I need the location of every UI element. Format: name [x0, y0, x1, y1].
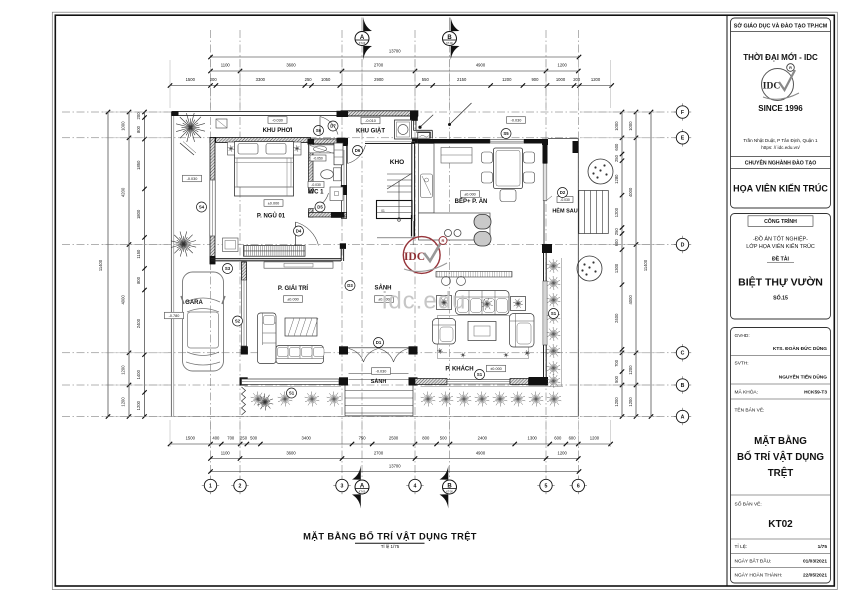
- bedroom cabinet: [223, 238, 239, 252]
- side table left: [437, 296, 452, 310]
- wc right wall: [342, 145, 347, 219]
- svg-text:2700: 2700: [374, 62, 384, 67]
- hem sau exterior steps: [579, 191, 609, 234]
- svg-text:800: 800: [136, 276, 141, 284]
- fence post grid6/E: [573, 141, 579, 153]
- svg-text:-0.780: -0.780: [169, 314, 180, 318]
- window tag S1 porch-left: [287, 388, 297, 398]
- svg-text:400: 400: [212, 436, 220, 441]
- svg-text:750: 750: [359, 436, 367, 441]
- svg-text:1000: 1000: [628, 121, 633, 131]
- svg-text:4000: 4000: [121, 295, 126, 305]
- svg-text:D: D: [681, 242, 685, 248]
- svg-text:S1: S1: [477, 372, 483, 377]
- section marker B bottom: [440, 466, 449, 480]
- svg-text:4: 4: [414, 483, 417, 489]
- svg-text:S6: S6: [316, 128, 322, 133]
- svg-text:MẶT BẰNG BỐ TRÍ VẬT DỤNG TRỆT: MẶT BẰNG BỐ TRÍ VẬT DỤNG TRỆT: [303, 531, 477, 542]
- svg-text:1200: 1200: [136, 400, 141, 410]
- terrace plant bottom: [184, 244, 197, 247]
- foyer/kitchen divider grid4: [411, 215, 413, 237]
- svg-text:1200: 1200: [614, 207, 619, 217]
- wc bottom wall: [309, 213, 347, 218]
- living sofa main: [456, 291, 510, 315]
- flower bed bottom-left: [245, 386, 342, 388]
- door tag D7: [328, 121, 338, 131]
- svg-text:1000: 1000: [614, 121, 619, 131]
- svg-text:±0.000: ±0.000: [287, 298, 299, 302]
- kitchen right wall grid5: [543, 144, 548, 164]
- door swing NE: [420, 115, 434, 128]
- svg-text:-0.030: -0.030: [560, 198, 570, 202]
- bedroom left wall: [210, 138, 215, 265]
- svg-text:2400: 2400: [478, 436, 488, 441]
- svg-text:P. NGỦ 01: P. NGỦ 01: [257, 213, 286, 220]
- watermark IDC red logo: [403, 237, 440, 274]
- door tag D2: [558, 188, 568, 198]
- window tag S3: [223, 264, 233, 274]
- svg-text:E: E: [681, 136, 685, 142]
- coffee table ent: [285, 318, 317, 336]
- svg-text:1100: 1100: [221, 450, 231, 455]
- door D7 arc: [319, 117, 321, 135]
- section marker B top: [451, 17, 460, 31]
- svg-text:1100: 1100: [221, 62, 231, 67]
- svg-text:-0.030: -0.030: [187, 177, 198, 181]
- svg-text:1200: 1200: [121, 397, 126, 407]
- svg-text:GVHD:: GVHD:: [735, 333, 750, 339]
- svg-text:S5: S5: [503, 131, 509, 136]
- window tag S4: [197, 202, 207, 212]
- svg-text:200: 200: [573, 77, 581, 82]
- title block box 3: [731, 328, 831, 584]
- svg-text:1200: 1200: [628, 397, 633, 407]
- svg-text:B: B: [681, 383, 685, 389]
- svg-text:01: 01: [381, 209, 385, 213]
- svg-text:1200: 1200: [502, 77, 512, 82]
- svg-text:2: 2: [239, 483, 242, 489]
- svg-text:600: 600: [614, 239, 619, 247]
- svg-text:2700: 2700: [374, 450, 384, 455]
- washing machine: [395, 120, 412, 139]
- khu phoi vent: [216, 119, 227, 128]
- door tag D6: [353, 146, 363, 156]
- svg-text:6: 6: [577, 483, 580, 489]
- svg-text:-ĐỒ ÁN TỐT NGHIỆP-: -ĐỒ ÁN TỐT NGHIỆP-: [753, 235, 808, 243]
- tv sideboard: [264, 262, 333, 268]
- svg-text:11400: 11400: [643, 259, 648, 271]
- wall NE notch: [412, 111, 418, 117]
- top dimension chains: [211, 56, 580, 58]
- svg-text:700: 700: [227, 436, 235, 441]
- kho right wall grid4: [411, 142, 413, 221]
- svg-text:1150: 1150: [136, 249, 141, 259]
- svg-text:P. KHÁCH: P. KHÁCH: [445, 366, 473, 373]
- living bottom wall: [415, 379, 447, 385]
- svg-text:1200: 1200: [628, 365, 633, 375]
- grid bubbles right A-F: [674, 111, 691, 113]
- svg-text:R: R: [789, 66, 792, 70]
- svg-text:500: 500: [440, 436, 448, 441]
- svg-text:200: 200: [210, 77, 218, 82]
- hedge sawtooth: [242, 387, 246, 415]
- small decor marks: [440, 350, 443, 353]
- terrace ramp mark: [180, 143, 194, 155]
- flower bed bottom-right: [421, 386, 564, 388]
- svg-text:1000: 1000: [121, 121, 126, 131]
- svg-text:-0.030: -0.030: [272, 119, 283, 123]
- svg-text:500: 500: [250, 436, 258, 441]
- right dimension chains: [621, 112, 623, 417]
- svg-text:3600: 3600: [286, 450, 296, 455]
- svg-text:250: 250: [305, 77, 313, 82]
- svg-text:11400: 11400: [98, 259, 103, 271]
- kitchen sink: [421, 174, 433, 198]
- svg-text:-0.010: -0.010: [365, 119, 376, 123]
- svg-text:2500: 2500: [389, 436, 399, 441]
- svg-text:500: 500: [614, 375, 619, 383]
- tree NE: [588, 159, 613, 184]
- svg-text:HCK59-T3: HCK59-T3: [804, 390, 827, 396]
- svg-text:A: A: [360, 35, 365, 41]
- svg-text:IDC: IDC: [763, 82, 781, 92]
- svg-text:3400: 3400: [302, 436, 312, 441]
- coffee table living: [468, 322, 496, 341]
- wc tall cabinet: [334, 143, 343, 165]
- svg-text:KT-00: KT-00: [359, 490, 366, 493]
- wall E bedroom top (hatched): [210, 138, 311, 143]
- svg-text:SỐ BẢN VẼ:: SỐ BẢN VẼ:: [735, 501, 762, 508]
- wall wc top: [308, 139, 342, 144]
- plot fence left: [170, 112, 172, 417]
- hem sau top line: [548, 138, 578, 140]
- svg-text:D5: D5: [317, 205, 323, 210]
- svg-text:KHO: KHO: [390, 159, 404, 166]
- svg-text:BỐ TRÍ VẬT DỤNG: BỐ TRÍ VẬT DỤNG: [737, 451, 824, 463]
- svg-text:B: B: [447, 35, 452, 41]
- wall kitchen top: [418, 139, 490, 144]
- wall top khu phoi: [172, 112, 342, 116]
- svg-text:SVTH:: SVTH:: [735, 361, 749, 367]
- shower tray: [330, 187, 343, 201]
- svg-text:2400: 2400: [614, 313, 619, 323]
- svg-text:ĐỀ TÀI: ĐỀ TÀI: [772, 256, 790, 263]
- fridge: [441, 148, 472, 164]
- door D6 leaf: [347, 145, 349, 164]
- svg-text:±0.000: ±0.000: [490, 367, 502, 371]
- svg-text:13700: 13700: [389, 48, 401, 53]
- svg-text:GARA: GARA: [185, 300, 203, 306]
- svg-text:3300: 3300: [256, 77, 266, 82]
- svg-text:1300: 1300: [528, 436, 538, 441]
- svg-text:-0.030: -0.030: [311, 183, 321, 187]
- svg-text:D1: D1: [376, 340, 382, 345]
- plot fence right: [577, 139, 579, 417]
- dining table: [494, 148, 523, 189]
- wardrobe: [244, 246, 306, 257]
- window tag S5: [501, 129, 511, 139]
- car in gara: [183, 272, 224, 371]
- wall kho top + door D6 gap: [365, 143, 415, 145]
- svg-text:idc.edu: idc.edu: [382, 288, 466, 315]
- left dimension chains: [107, 112, 109, 417]
- pots dark: [474, 215, 491, 230]
- svg-text:800: 800: [422, 436, 430, 441]
- svg-text:900: 900: [531, 77, 539, 82]
- svg-text:3: 3: [341, 483, 344, 489]
- svg-text:800: 800: [136, 125, 141, 133]
- window tag S1 right: [549, 309, 559, 319]
- svg-text:600: 600: [569, 436, 577, 441]
- bar counter hatched band: [436, 272, 512, 278]
- svg-text:HẺM SAU: HẺM SAU: [552, 208, 577, 215]
- door D2 tag pointer: [547, 196, 552, 200]
- svg-text:600: 600: [614, 143, 619, 151]
- svg-text:1800: 1800: [136, 209, 141, 219]
- bed: [235, 142, 294, 197]
- door D4 leaf+arc: [295, 222, 297, 246]
- wall top khu giat (hatched): [341, 111, 418, 116]
- plant SW: [265, 402, 273, 404]
- svg-text:S3: S3: [225, 266, 231, 271]
- svg-text:2400: 2400: [136, 318, 141, 328]
- L sofa: [258, 313, 277, 364]
- grid bubbles bottom 1-6: [202, 485, 219, 487]
- svg-text:SINCE 1996: SINCE 1996: [758, 104, 803, 113]
- svg-text:1200: 1200: [557, 450, 567, 455]
- bar stools: [442, 277, 451, 286]
- dining chairs: [482, 152, 493, 163]
- svg-text:±0.000: ±0.000: [464, 193, 476, 197]
- svg-text:1: 1: [209, 483, 212, 489]
- svg-text:±0.000: ±0.000: [268, 202, 280, 206]
- svg-text:S4: S4: [199, 205, 205, 210]
- svg-text:01/03/2021: 01/03/2021: [803, 559, 827, 565]
- window tag S6: [314, 126, 324, 136]
- level label boxes: [268, 117, 287, 124]
- tree E: [577, 256, 602, 281]
- door tag D1: [374, 338, 384, 348]
- svg-text:CHUYÊN NGHÀNH ĐÀO TẠO: CHUYÊN NGHÀNH ĐÀO TẠO: [745, 159, 816, 167]
- door tag D3: [345, 281, 355, 291]
- svg-text:D3: D3: [347, 283, 353, 288]
- door tag D5: [315, 202, 325, 212]
- svg-text:4000: 4000: [628, 295, 633, 305]
- svg-text:250: 250: [240, 436, 248, 441]
- svg-text:KT-00: KT-00: [446, 490, 453, 493]
- wc vanity: [309, 145, 335, 153]
- svg-text:1280: 1280: [614, 174, 619, 184]
- svg-text:NGÀY HOÀN THÀNH:: NGÀY HOÀN THÀNH:: [735, 572, 783, 579]
- bottom dimension chains: [170, 443, 611, 445]
- svg-text:S1: S1: [551, 311, 557, 316]
- svg-text:1500: 1500: [186, 77, 196, 82]
- nightstand left: [228, 142, 235, 155]
- svg-text:KT-00: KT-00: [359, 42, 366, 45]
- svg-text:CÔNG TRÌNH: CÔNG TRÌNH: [764, 217, 797, 225]
- svg-text:-0.030: -0.030: [376, 370, 387, 374]
- window tag S2: [233, 316, 243, 326]
- svg-text:2900: 2900: [374, 77, 384, 82]
- svg-text:P. GIẢI TRÍ: P. GIẢI TRÍ: [278, 284, 309, 292]
- svg-text:IDC: IDC: [404, 251, 425, 263]
- svg-text:SỞ GIÁO DỤC VÀ ĐÀO TẠO TP.HCM: SỞ GIÁO DỤC VÀ ĐÀO TẠO TP.HCM: [734, 23, 828, 30]
- plot fence bottom: [171, 416, 578, 418]
- armchair right: [510, 314, 535, 348]
- svg-text:A: A: [360, 484, 365, 490]
- svg-text:S2: S2: [235, 319, 241, 324]
- section marker A bottom: [352, 466, 361, 480]
- svg-text:600: 600: [554, 436, 562, 441]
- toilet: [334, 168, 342, 181]
- svg-text:550: 550: [422, 77, 430, 82]
- svg-text:1200: 1200: [590, 436, 600, 441]
- svg-text:13700: 13700: [389, 463, 401, 468]
- svg-text:SẢNH: SẢNH: [371, 378, 387, 385]
- svg-text:2150: 2150: [457, 77, 467, 82]
- svg-text:4200: 4200: [121, 187, 126, 197]
- svg-text:1200: 1200: [557, 62, 567, 67]
- svg-text:1050: 1050: [321, 77, 331, 82]
- svg-text:BIỆT THỰ VƯỜN: BIỆT THỰ VƯỜN: [738, 276, 823, 289]
- svg-text:Tỉ lệ 1/75: Tỉ lệ 1/75: [381, 543, 400, 549]
- svg-text:1/75: 1/75: [818, 544, 828, 550]
- svg-text:C: C: [681, 351, 685, 357]
- svg-text:4900: 4900: [476, 450, 486, 455]
- title block box 1: [731, 18, 831, 208]
- kitchen island: [419, 213, 491, 240]
- svg-text:-0.050: -0.050: [313, 157, 323, 161]
- svg-text:B: B: [447, 484, 452, 490]
- svg-text:5: 5: [545, 483, 548, 489]
- svg-text:KTS. ĐOÀN ĐỨC DŨNG: KTS. ĐOÀN ĐỨC DŨNG: [773, 345, 827, 352]
- title block separator line: [726, 15, 728, 586]
- svg-text:D6: D6: [355, 148, 361, 153]
- svg-text:Trần Nhật Duật, P Tân Định, Qu: Trần Nhật Duật, P Tân Định, Quận 1: [743, 138, 818, 143]
- svg-text:1200: 1200: [121, 365, 126, 375]
- door tag D4: [294, 226, 304, 236]
- armchair left: [433, 319, 456, 345]
- svg-text:F: F: [681, 110, 684, 116]
- svg-text:KHU PHƠI: KHU PHƠI: [263, 128, 293, 134]
- svg-text:S1: S1: [289, 391, 295, 396]
- svg-text:1000: 1000: [556, 77, 566, 82]
- wc left wall: [309, 144, 314, 193]
- svg-text:https: // idc.edu.vn/: https: // idc.edu.vn/: [761, 145, 800, 150]
- side table right: [511, 297, 526, 311]
- stair landing edge: [377, 237, 413, 239]
- svg-text:D2: D2: [560, 190, 566, 195]
- svg-text:1200: 1200: [591, 77, 601, 82]
- ent room bottom window S1: [242, 379, 340, 385]
- section marker A top: [363, 17, 372, 31]
- IDC logo title block: [762, 69, 794, 101]
- title block box 2: [731, 214, 831, 320]
- living rug: [438, 316, 529, 359]
- svg-text:NGUYỄN TIẾN DŨNG: NGUYỄN TIẾN DŨNG: [779, 374, 828, 381]
- svg-text:250: 250: [614, 154, 619, 162]
- staircase in KHO: [387, 173, 412, 175]
- door D5 leaf+arc: [313, 193, 329, 209]
- svg-text:700: 700: [614, 359, 619, 367]
- svg-text:D4: D4: [296, 229, 302, 234]
- svg-text:R: R: [442, 238, 445, 243]
- svg-text:1200: 1200: [614, 397, 619, 407]
- svg-text:LỚP HỌA VIÊN KIẾN TRÚC: LỚP HỌA VIÊN KIẾN TRÚC: [746, 242, 815, 250]
- svg-text:KT02: KT02: [768, 519, 793, 530]
- grid axis lines: [210, 30, 212, 478]
- ent room left wall grid2: [242, 262, 247, 346]
- svg-text:HỌA VIÊN KIẾN TRÚC: HỌA VIÊN KIẾN TRÚC: [733, 183, 828, 194]
- bedroom bottom wall (thin): [211, 258, 341, 260]
- svg-text:-0.030: -0.030: [511, 119, 522, 123]
- flower bed right strip: [561, 258, 563, 386]
- window S4: [210, 180, 215, 236]
- svg-text:3600: 3600: [286, 62, 296, 67]
- svg-text:250: 250: [614, 228, 619, 236]
- svg-text:200: 200: [136, 112, 141, 120]
- window tag S1 living: [475, 370, 485, 380]
- svg-text:1500: 1500: [186, 436, 196, 441]
- svg-text:MẶT BẰNG: MẶT BẰNG: [754, 436, 807, 447]
- svg-text:1850: 1850: [136, 160, 141, 170]
- svg-text:MÃ KHÓA:: MÃ KHÓA:: [735, 389, 758, 396]
- svg-text:4900: 4900: [476, 62, 486, 67]
- svg-text:KT-00: KT-00: [446, 42, 453, 45]
- svg-text:4000: 4000: [628, 187, 633, 197]
- svg-text:BẾP+ P. ĂN: BẾP+ P. ĂN: [455, 198, 488, 205]
- svg-text:1400: 1400: [136, 369, 141, 379]
- svg-text:SỐ.15: SỐ.15: [773, 295, 788, 302]
- svg-text:22/05/2021: 22/05/2021: [803, 573, 827, 579]
- kitchen counter L: [419, 144, 435, 214]
- svg-text:KHU GIẶT: KHU GIẶT: [356, 128, 385, 135]
- gate swing backyard: [449, 103, 472, 125]
- porch posts: [339, 346, 348, 354]
- svg-text:1300: 1300: [614, 263, 619, 273]
- window S5: [490, 140, 524, 144]
- terrace plant top: [191, 128, 206, 132]
- porch entry door arcs: [349, 349, 364, 363]
- svg-text:THỜI ĐẠI MỚI - IDC: THỜI ĐẠI MỚI - IDC: [743, 53, 818, 62]
- svg-text:TRỆT: TRỆT: [768, 467, 794, 479]
- grid3/D post: [340, 243, 346, 249]
- entrance steps: [344, 386, 346, 416]
- svg-text:WC 1: WC 1: [309, 190, 325, 196]
- nightstand right: [294, 142, 302, 155]
- living right wall grid5: [542, 244, 552, 253]
- svg-text:A: A: [681, 414, 685, 420]
